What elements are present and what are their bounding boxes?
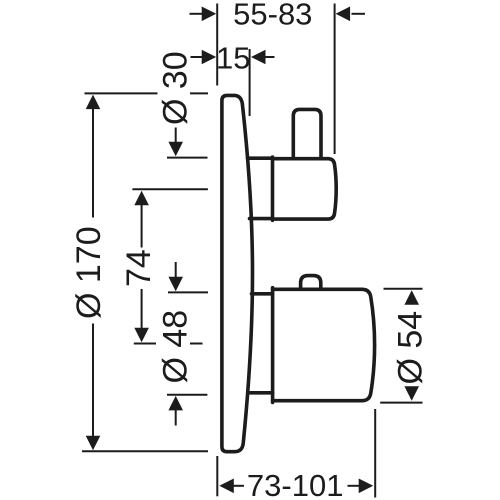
wall plate (side view) xyxy=(222,95,253,451)
15 right arrowhead xyxy=(251,50,266,65)
shared top extent line (plate top / Ø30 top) xyxy=(85,92,158,94)
bottom sleeve bottom line xyxy=(249,391,273,395)
Ø54 up arrowhead xyxy=(404,290,419,305)
Ø30 down arrowhead xyxy=(168,142,183,157)
Ø30 bottom extent line xyxy=(167,157,208,159)
73-101 right arrowhead xyxy=(359,479,374,494)
55-83 right arrowhead xyxy=(336,7,351,22)
74 top extent line xyxy=(132,188,208,190)
svg-text:73-101: 73-101 xyxy=(247,468,344,500)
Ø48 bottom extent line xyxy=(167,394,207,396)
55-83 extension line left xyxy=(216,4,218,86)
74 up arrowhead xyxy=(134,191,149,206)
Ø54 bottom extent line xyxy=(380,402,422,404)
svg-text:15: 15 xyxy=(216,40,250,75)
Ø48 up arrowhead xyxy=(168,396,183,411)
Ø54 down arrowhead xyxy=(404,386,419,401)
top knob xyxy=(293,109,321,158)
bottom handle tab xyxy=(301,276,321,289)
bottom sleeve top line xyxy=(252,292,273,296)
Ø170 bottom extent line xyxy=(82,450,208,452)
55-83 left arrowhead xyxy=(202,7,217,22)
15 left arrowhead xyxy=(202,50,217,65)
Ø30 arrow stub xyxy=(175,128,177,143)
top handle left edge xyxy=(271,157,275,220)
15 extension line right xyxy=(249,49,251,116)
15 arrow tails xyxy=(191,56,203,58)
top sleeve top line xyxy=(248,156,273,160)
svg-text:Ø 30: Ø 30 xyxy=(156,51,194,125)
73-101 extension line left xyxy=(216,456,218,496)
Ø170 dim line lower stub xyxy=(92,324,94,437)
arrowheads xyxy=(86,7,419,494)
74 dim stubs xyxy=(141,205,143,248)
top handle body xyxy=(273,159,337,219)
55-83 arrow tails xyxy=(190,13,203,15)
Ø170 up arrowhead xyxy=(86,95,101,110)
Ø54 top extent line xyxy=(384,288,423,290)
bottom handle body xyxy=(273,289,375,400)
73-101 extension line right xyxy=(374,409,376,498)
svg-text:Ø 48: Ø 48 xyxy=(156,310,194,384)
74 bottom extent line xyxy=(134,343,156,345)
Ø48 down arrowhead xyxy=(168,277,183,292)
Ø170 down arrowhead xyxy=(86,436,101,451)
Ø170 dim line upper stub xyxy=(92,109,94,218)
55-83 extension line right xyxy=(334,4,336,155)
Ø48 arrow stubs xyxy=(175,262,177,277)
svg-text:55-83: 55-83 xyxy=(233,0,312,32)
bottom handle left edge xyxy=(271,288,275,403)
svg-text:74: 74 xyxy=(120,249,158,287)
73-101 arrow tails xyxy=(234,485,245,487)
svg-text:Ø 54: Ø 54 xyxy=(392,311,430,385)
top sleeve bottom line xyxy=(250,217,273,221)
svg-text:Ø 170: Ø 170 xyxy=(70,226,108,319)
Ø48 top extent line xyxy=(168,291,208,293)
74 down arrowhead xyxy=(134,328,149,343)
73-101 left arrowhead xyxy=(219,479,234,494)
